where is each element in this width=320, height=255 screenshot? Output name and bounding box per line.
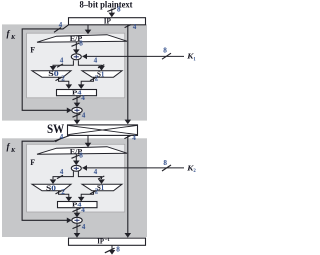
svg-text:8: 8	[117, 6, 121, 14]
svg-text:8: 8	[163, 47, 167, 55]
svg-text:4: 4	[81, 94, 85, 102]
svg-text:8: 8	[116, 245, 120, 253]
svg-text:2: 2	[95, 188, 99, 196]
svg-text:8: 8	[79, 40, 83, 48]
svg-text:S0: S0	[46, 185, 57, 192]
svg-text:4: 4	[94, 168, 98, 176]
svg-text:2: 2	[95, 74, 99, 82]
svg-text:2: 2	[61, 75, 65, 83]
svg-text:8–bit plaintext: 8–bit plaintext	[80, 0, 134, 10]
svg-text:P4: P4	[72, 202, 82, 209]
svg-text:4: 4	[82, 223, 86, 231]
svg-text:F: F	[30, 46, 35, 55]
svg-text:P4: P4	[72, 90, 82, 97]
svg-text:K: K	[10, 147, 16, 154]
svg-text:4: 4	[132, 134, 136, 142]
svg-text:2: 2	[61, 188, 65, 196]
svg-text:4: 4	[94, 57, 98, 65]
svg-text:F: F	[30, 158, 35, 167]
svg-text:IP: IP	[97, 238, 104, 245]
svg-text:4: 4	[60, 57, 64, 65]
svg-text:4: 4	[60, 133, 64, 141]
svg-text:4: 4	[59, 21, 63, 29]
svg-text:4: 4	[81, 206, 85, 214]
svg-text:4: 4	[82, 111, 86, 119]
svg-text:–1: –1	[104, 238, 110, 243]
svg-text:S0: S0	[48, 71, 59, 78]
svg-text:4: 4	[133, 23, 137, 31]
svg-text:IP: IP	[104, 15, 111, 25]
svg-text:K: K	[10, 34, 16, 41]
svg-text:8: 8	[79, 152, 83, 160]
svg-text:8: 8	[163, 159, 167, 167]
svg-text:4: 4	[60, 168, 64, 176]
